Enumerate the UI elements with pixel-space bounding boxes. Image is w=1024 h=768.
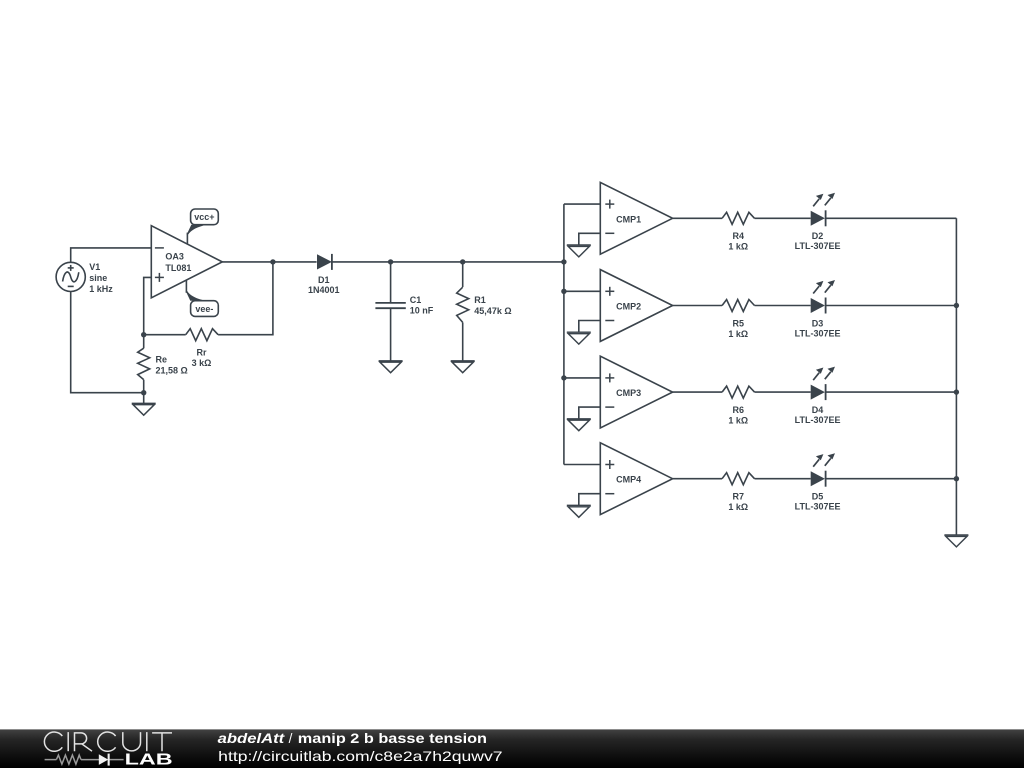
wire D4 to right bus (827, 391, 957, 393)
wire CMP3 output to R6 (673, 391, 723, 393)
label R5 1 kOhm (728, 318, 748, 339)
LED D3 (811, 280, 835, 314)
wire comparator input bus (563, 204, 565, 464)
svg-text:1 kΩ: 1 kΩ (728, 416, 748, 426)
label D1 1N4001 (308, 275, 340, 295)
svg-text:sine: sine (89, 273, 107, 283)
svg-text:1 kHz: 1 kHz (89, 284, 113, 294)
label Rr 3 kOhm (192, 348, 212, 369)
ground at right bus (944, 535, 968, 547)
wire Rr to op-amp output (218, 262, 273, 335)
label D5 LTL-307EE (795, 492, 841, 512)
svg-text:LTL-307EE: LTL-307EE (795, 328, 841, 338)
node output junction (270, 259, 275, 264)
comparator CMP4 (600, 443, 672, 515)
svg-text:1N4001: 1N4001 (308, 285, 340, 295)
wire op-amp output to D1 (222, 261, 316, 263)
ground below C1 (379, 361, 403, 373)
comparator CMP1 (600, 182, 672, 254)
svg-text:/: / (289, 731, 293, 746)
ground below Re (132, 403, 156, 415)
svg-text:D1: D1 (318, 275, 330, 285)
ground below R1 (451, 361, 475, 373)
svg-text:R7: R7 (733, 492, 745, 502)
label R1 45,47k Ohm (474, 295, 511, 316)
node feedback junction (141, 332, 146, 337)
wire CMP1 output to R4 (673, 217, 723, 219)
label Re 21,58 Ohm (156, 355, 188, 376)
CircuitLab logo doodle resistor and diode (45, 755, 124, 764)
svg-text:LAB: LAB (125, 752, 173, 768)
svg-text:vcc+: vcc+ (194, 212, 214, 222)
wire CMP4 output to R7 (673, 478, 723, 480)
wire bus to CMP3 non-inverting input (564, 377, 600, 379)
node bus junction CMP3 (561, 375, 566, 380)
wire R4 to D2 (755, 217, 811, 219)
svg-text:OA3: OA3 (165, 252, 184, 262)
wire CMP3 inverting input to ground (579, 407, 601, 419)
svg-text:1 kΩ: 1 kΩ (728, 329, 748, 339)
vee- power pin wire and flag (186, 280, 206, 301)
CircuitLab logo text CIRCUIT (hand drawn thin geometric letters) (44, 732, 172, 751)
LED D2 (811, 193, 835, 227)
label D3 LTL-307EE (795, 318, 841, 338)
wire CMP2 output to R5 (673, 305, 723, 307)
resistor Rr (186, 329, 218, 341)
svg-text:R6: R6 (733, 405, 745, 415)
resistor R4 (722, 212, 754, 224)
wire D3 to right bus (827, 305, 957, 307)
svg-text:Rr: Rr (196, 348, 206, 358)
svg-text:1 kΩ: 1 kΩ (728, 502, 748, 512)
wire CMP1 inverting input to ground (579, 233, 601, 245)
label OA3 TL081 (165, 252, 191, 273)
op-amp U OA3 triangle (151, 226, 222, 298)
wire feedback node to Rr (144, 334, 186, 336)
voltage source V1 (56, 262, 85, 291)
svg-text:D4: D4 (812, 405, 824, 415)
label R4 1 kOhm (728, 231, 748, 252)
svg-text:CMP2: CMP2 (616, 302, 641, 312)
node R1 junction (460, 259, 465, 264)
wire R6 to D4 (755, 391, 811, 393)
svg-text:TL081: TL081 (165, 263, 191, 273)
svg-text:LTL-307EE: LTL-307EE (795, 415, 841, 425)
label C1 10 nF (410, 295, 434, 316)
vcc+ power pin wire and flag (187, 225, 207, 244)
wire D5 to right bus (827, 478, 957, 480)
wire D2 to right bus (827, 217, 957, 219)
wire bus to CMP1 non-inverting input (564, 203, 600, 205)
svg-text:R4: R4 (733, 231, 745, 241)
svg-text:C1: C1 (410, 295, 422, 305)
node C1 junction (388, 259, 393, 264)
diode D1 (317, 254, 332, 270)
svg-text:vee-: vee- (195, 304, 213, 314)
label D2 LTL-307EE (795, 231, 841, 251)
comparator CMP3 (600, 356, 672, 428)
wire bus to CMP4 non-inverting input (564, 464, 600, 466)
svg-text:D5: D5 (812, 492, 824, 502)
capacitor C1 (375, 262, 405, 361)
svg-text:V1: V1 (89, 262, 100, 272)
resistor Re (138, 335, 150, 393)
svg-text:21,58 Ω: 21,58 Ω (156, 365, 188, 375)
label D4 LTL-307EE (795, 405, 841, 425)
wire LED common bus to ground (955, 218, 957, 535)
svg-text:45,47k Ω: 45,47k Ω (474, 306, 511, 316)
wire R7 to D5 (755, 478, 811, 480)
node ground junction (141, 390, 146, 395)
svg-text:manip 2 b basse tension: manip 2 b basse tension (298, 731, 487, 746)
wire V1 bottom to ground node (71, 292, 144, 393)
vee- net flag box (191, 301, 219, 317)
svg-text:D2: D2 (812, 231, 824, 241)
svg-text:CMP3: CMP3 (616, 388, 641, 398)
svg-text:3 kΩ: 3 kΩ (192, 358, 212, 368)
svg-text:http://circuitlab.com/c8e2a7h2: http://circuitlab.com/c8e2a7h2quwv7 (218, 748, 503, 764)
node right bus junction (954, 476, 959, 481)
svg-text:CMP4: CMP4 (616, 475, 641, 485)
resistor R5 (722, 300, 754, 312)
node right bus junction (954, 389, 959, 394)
wire R5 to D3 (755, 305, 811, 307)
svg-text:D3: D3 (812, 318, 824, 328)
LED D5 (811, 453, 835, 487)
wire ground stub (143, 393, 145, 404)
vcc+ net flag box (191, 209, 219, 225)
wire non-inverting input of OA3 (144, 277, 152, 334)
wire CMP2 inverting input to ground (579, 321, 601, 333)
node bus junction CMP2 (561, 289, 566, 294)
wire V1 top to op-amp inverting input (71, 248, 152, 262)
ground at CMP4 inverting input (567, 505, 591, 517)
svg-text:LTL-307EE: LTL-307EE (795, 241, 841, 251)
footer bar (0, 729, 1024, 768)
wire D1 to comparator bus (332, 261, 564, 263)
svg-text:R1: R1 (474, 295, 486, 305)
svg-text:LTL-307EE: LTL-307EE (795, 502, 841, 512)
comparator CMP2 (600, 270, 672, 342)
ground at CMP1 inverting input (567, 245, 591, 257)
footer title abdelAtt / manip 2 b basse tension (218, 731, 487, 746)
svg-text:1 kΩ: 1 kΩ (728, 242, 748, 252)
resistor R1 (457, 262, 469, 361)
resistor R7 (722, 473, 754, 485)
wire bus to CMP2 non-inverting input (564, 290, 600, 292)
ground at CMP3 inverting input (567, 419, 591, 431)
node bus main junction (561, 259, 566, 264)
wire CMP4 inverting input to ground (579, 494, 601, 506)
svg-text:CMP1: CMP1 (616, 214, 641, 224)
LED D4 (811, 367, 835, 401)
svg-text:abdelAtt: abdelAtt (218, 731, 285, 746)
resistor R6 (722, 386, 754, 398)
label R6 1 kOhm (728, 405, 748, 426)
ground at CMP2 inverting input (567, 332, 591, 344)
label V1 sine 1 kHz (89, 262, 113, 294)
svg-text:10 nF: 10 nF (410, 306, 434, 316)
node right bus junction (954, 303, 959, 308)
label R7 1 kOhm (728, 492, 748, 513)
svg-text:R5: R5 (733, 318, 745, 328)
svg-text:Re: Re (156, 355, 168, 365)
